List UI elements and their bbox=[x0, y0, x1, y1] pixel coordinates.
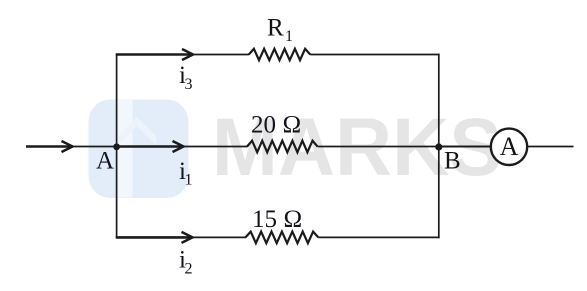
svg-text:A: A bbox=[500, 132, 519, 161]
wire middle branch right lead bbox=[318, 146, 439, 148]
svg-text:R: R bbox=[267, 15, 284, 42]
wire left vertical bbox=[116, 54, 118, 239]
svg-text:1: 1 bbox=[185, 171, 193, 188]
svg-text:3: 3 bbox=[185, 76, 193, 93]
wire left input thin bbox=[72, 146, 117, 148]
resistor 15 ohm bbox=[246, 232, 319, 244]
node B bbox=[435, 143, 442, 150]
wire right vertical bbox=[438, 54, 440, 239]
wire top branch left lead bbox=[193, 54, 249, 56]
arrowhead left input bbox=[62, 141, 73, 152]
wire top branch right lead bbox=[310, 54, 439, 56]
wire middle branch left lead bbox=[184, 146, 248, 148]
node A bbox=[113, 143, 120, 150]
wire bottom branch left lead bbox=[193, 236, 247, 238]
wire left input bbox=[26, 145, 73, 148]
resistor R1 bbox=[249, 49, 310, 60]
wire B to ammeter bbox=[439, 146, 491, 148]
svg-text:1: 1 bbox=[285, 28, 293, 45]
svg-text:20 Ω: 20 Ω bbox=[251, 111, 301, 138]
wire bottom branch right lead bbox=[318, 236, 439, 238]
svg-text:B: B bbox=[444, 148, 461, 175]
svg-text:15 Ω: 15 Ω bbox=[252, 206, 302, 233]
watermark logo bbox=[89, 100, 189, 199]
arrowhead i3 bbox=[182, 49, 193, 60]
svg-text:A: A bbox=[96, 147, 114, 174]
wire right output bbox=[527, 146, 574, 148]
arrowhead i1 bbox=[173, 141, 184, 152]
ammeter circle bbox=[491, 129, 527, 165]
arrowhead i2 bbox=[182, 232, 193, 243]
wire bottom branch arrow segment bbox=[116, 236, 193, 239]
wire top branch arrow segment bbox=[116, 53, 193, 56]
wire middle branch arrow segment bbox=[117, 145, 184, 148]
resistor 20 ohm bbox=[247, 141, 317, 153]
svg-text:2: 2 bbox=[185, 261, 193, 278]
